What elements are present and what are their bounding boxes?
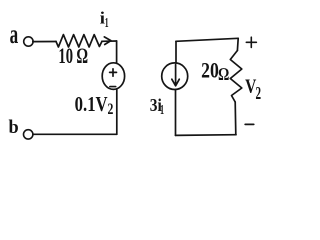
label i of i1	[100, 9, 105, 28]
svg-text:10 Ω: 10 Ω	[58, 44, 87, 69]
label 20 of 20 ohm	[201, 59, 219, 83]
minus sign inside source	[110, 86, 116, 88]
dependent voltage source circle U1	[102, 63, 124, 90]
label subscript 2 of 0.1V2	[108, 101, 114, 118]
label V of V2	[245, 75, 256, 97]
right loop top wire	[176, 38, 238, 41]
svg-text:1: 1	[105, 16, 109, 31]
right loop left wire upper	[175, 41, 177, 63]
label ohm sign of 20 ohm	[218, 66, 229, 85]
label subscript 1 of 3i1	[160, 103, 164, 117]
resistor R 10 ohm	[56, 35, 102, 47]
right loop right wire upper	[236, 38, 239, 50]
label a	[10, 19, 19, 49]
bottom wire to terminal b	[33, 133, 117, 135]
wire resistor to corner	[102, 40, 117, 42]
svg-text:Ω: Ω	[218, 66, 229, 85]
label 10 ohm	[58, 44, 87, 69]
wire corner down to source	[116, 41, 118, 63]
current arrow i1 head	[104, 37, 111, 45]
svg-text:2: 2	[108, 101, 114, 118]
svg-text:20: 20	[201, 59, 219, 83]
right loop left wire lower	[175, 90, 177, 136]
current source arrow	[172, 65, 180, 86]
terminal b circle	[24, 130, 33, 139]
minus sign right bottom	[245, 123, 254, 125]
label 0.1V	[75, 93, 108, 116]
dependent current source circle I1	[162, 63, 188, 90]
svg-text:2: 2	[255, 85, 261, 104]
svg-text:1: 1	[160, 103, 164, 117]
label subscript 2 of V2	[255, 85, 261, 104]
svg-text:a: a	[10, 19, 19, 49]
label subscript 1 of i1	[105, 16, 109, 31]
plus sign right top	[246, 37, 256, 47]
wire source to bottom	[116, 89, 118, 134]
svg-text:0.1V: 0.1V	[75, 93, 108, 116]
right loop right wire lower	[234, 102, 237, 135]
resistor 20 ohm zigzag	[230, 51, 242, 103]
label 3i	[150, 95, 162, 115]
wire a to resistor	[33, 41, 56, 43]
right loop bottom wire	[176, 134, 237, 137]
label b	[8, 117, 18, 137]
plus sign inside source	[110, 69, 117, 76]
terminal a circle	[24, 37, 33, 46]
svg-text:b: b	[8, 117, 18, 137]
